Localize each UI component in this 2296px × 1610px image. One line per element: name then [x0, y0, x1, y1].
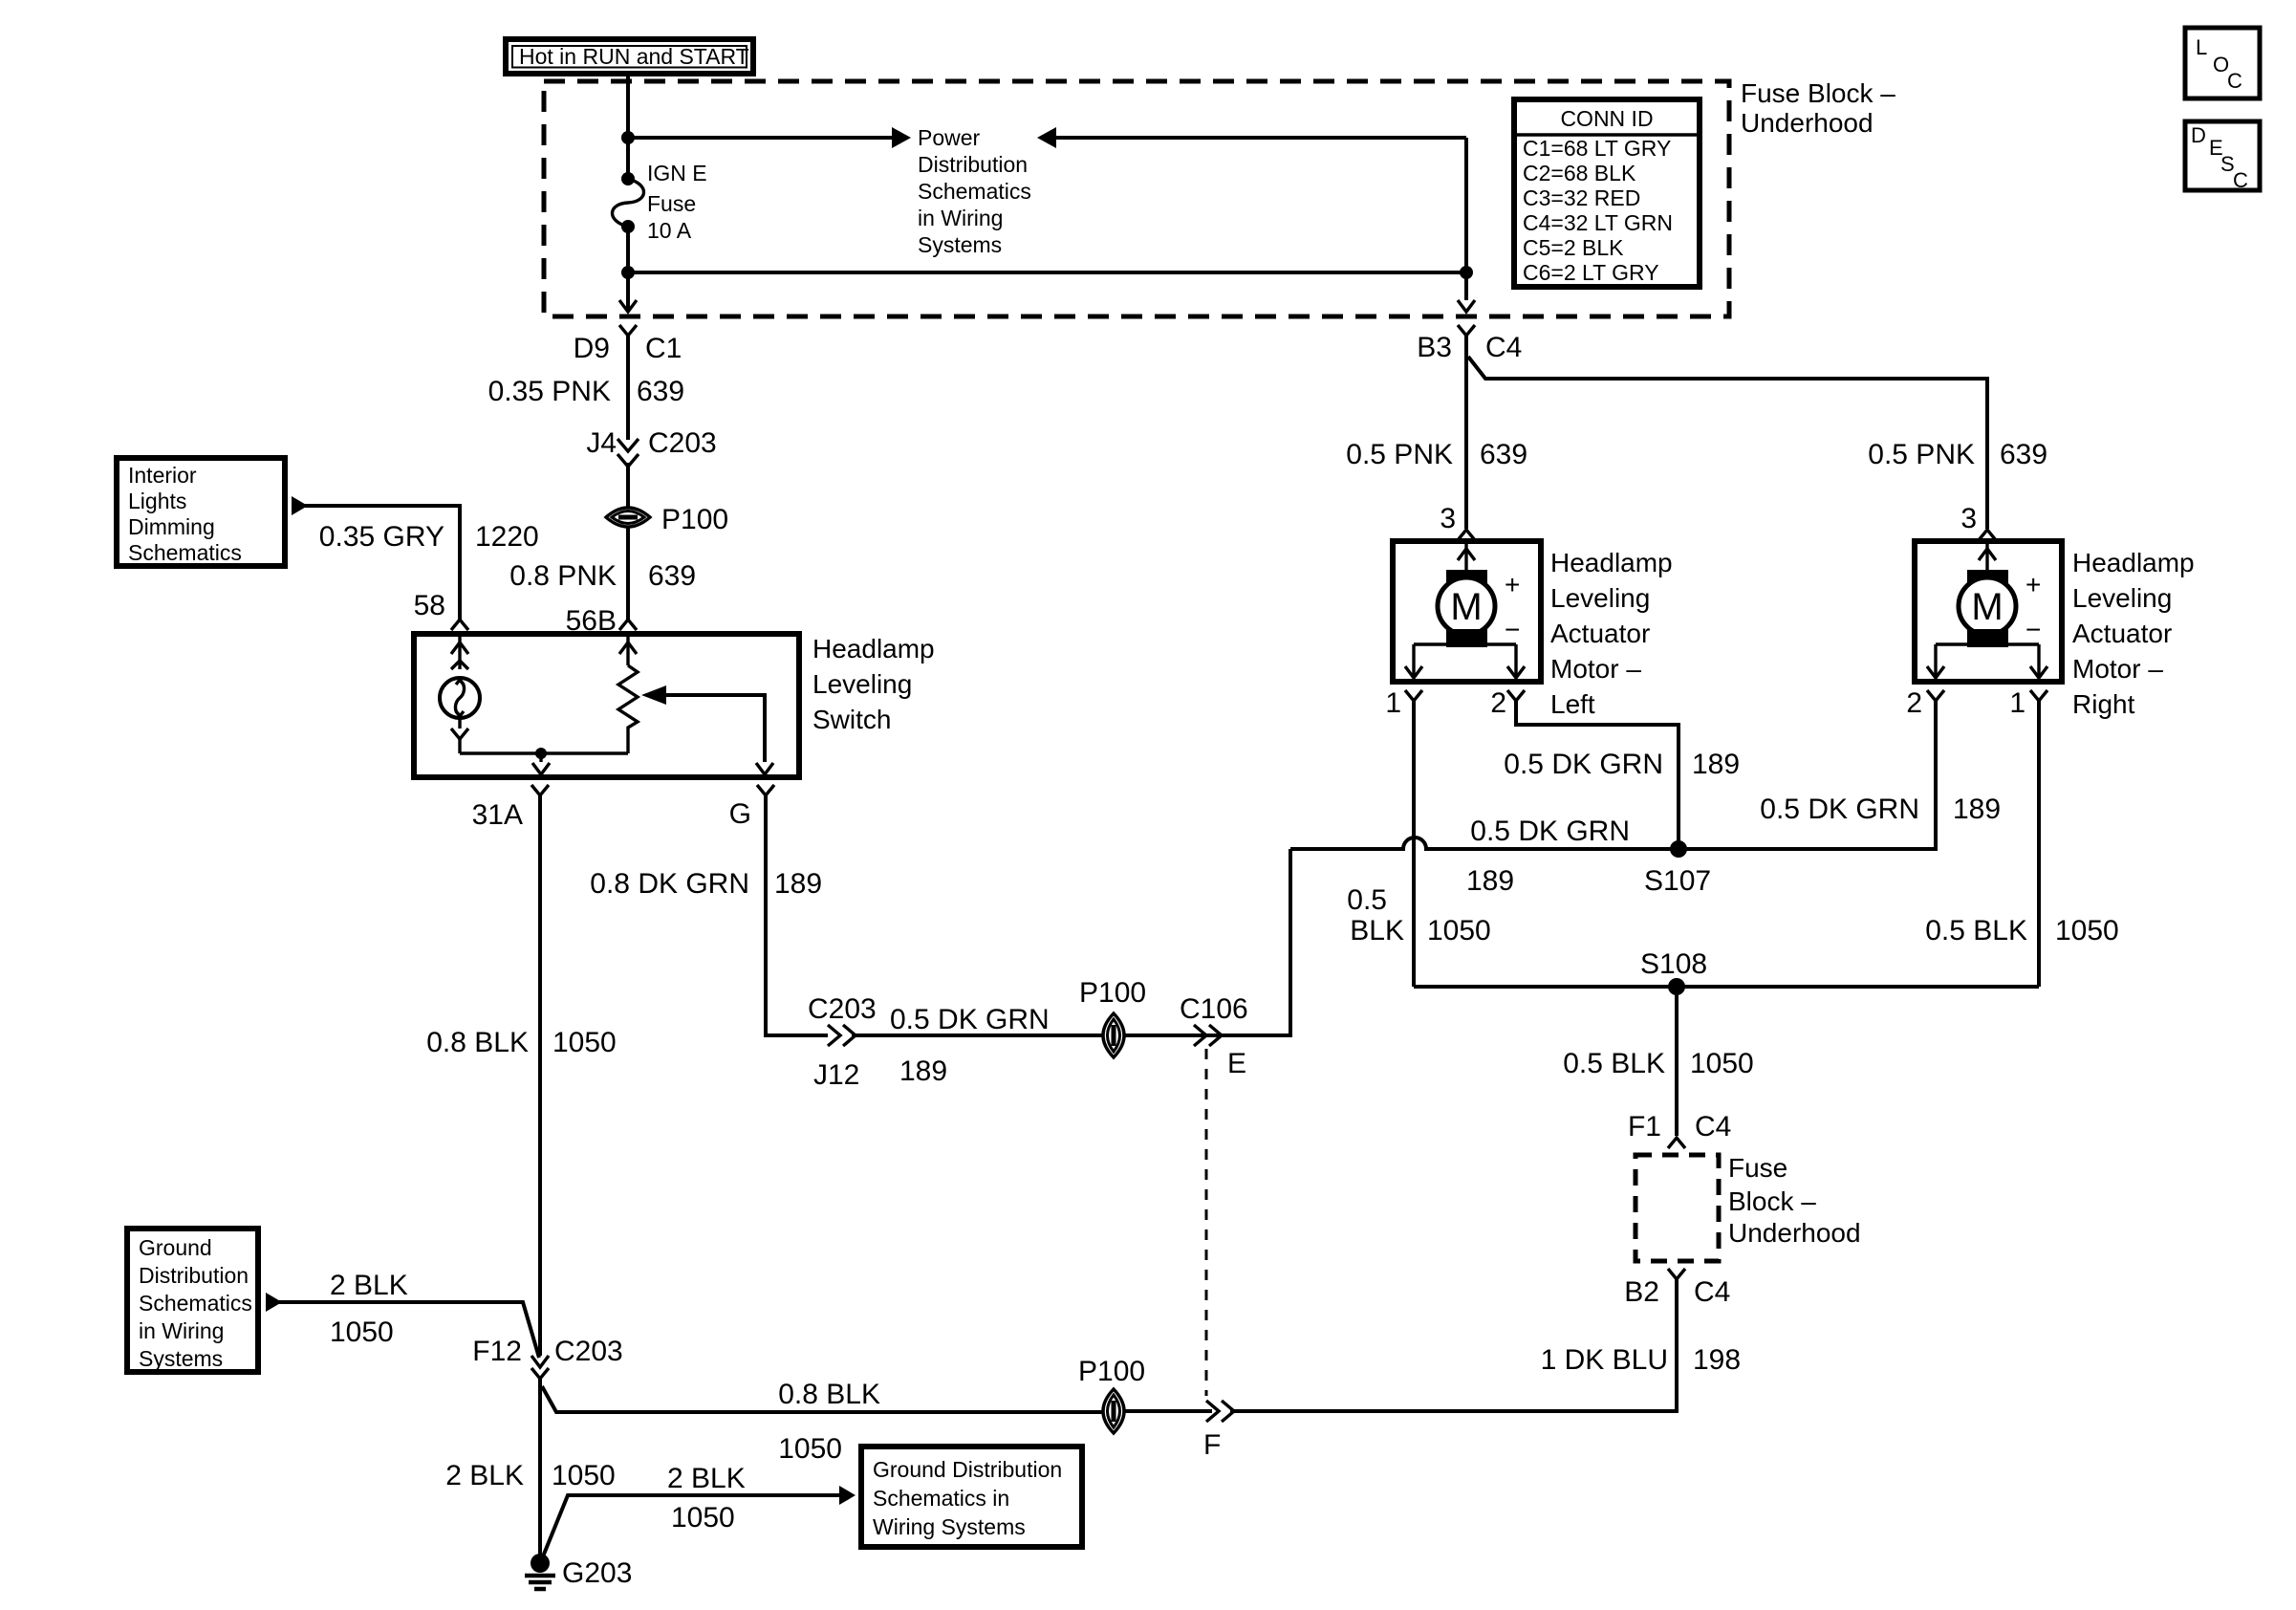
svg-text:C4=32 LT GRN: C4=32 LT GRN	[1523, 210, 1673, 235]
arrow at Interior Lights box	[292, 496, 308, 515]
svg-text:C2=68 BLK: C2=68 BLK	[1523, 161, 1636, 185]
svg-text:C203: C203	[554, 1336, 623, 1367]
svg-text:C4: C4	[1694, 1276, 1730, 1308]
ground G203 symbol	[525, 1554, 555, 1589]
svg-text:Underhood: Underhood	[1728, 1218, 1861, 1248]
label C203 above J12 below	[808, 993, 877, 1091]
svg-text:P100: P100	[1079, 977, 1146, 1009]
wire right motor pin 1 down to S108	[2037, 701, 2041, 987]
svg-text:0.8 DK GRN: 0.8 DK GRN	[590, 868, 749, 900]
Fuse Block Underhood small dashed box	[1635, 1155, 1719, 1261]
label pin 3 left	[1440, 503, 1456, 534]
svg-text:198: 198	[1693, 1344, 1741, 1376]
svg-text:F: F	[1203, 1429, 1221, 1461]
label 0.5 PNK 639 right	[1868, 439, 2047, 470]
svg-text:0.5 BLK: 0.5 BLK	[1925, 915, 2027, 946]
wire lower horizontal branch to B3	[628, 271, 1466, 274]
wire 198 DK BLU from B2 to F	[1230, 1279, 1677, 1411]
svg-text:G203: G203	[562, 1557, 632, 1589]
wire DK GRN from C106 riser to S107 with hop	[1290, 838, 1679, 849]
svg-text:C: C	[2233, 168, 2248, 192]
svg-text:1050: 1050	[2055, 915, 2119, 946]
lamp lower chevron	[451, 718, 468, 753]
svg-text:M: M	[1450, 586, 1482, 628]
svg-text:C106: C106	[1180, 993, 1248, 1025]
pin 3 chevron left motor	[1458, 530, 1475, 540]
svg-text:2: 2	[1490, 687, 1506, 719]
svg-text:189: 189	[899, 1055, 947, 1087]
svg-text:J12: J12	[813, 1059, 859, 1091]
svg-text:0.8 PNK: 0.8 PNK	[509, 560, 617, 592]
connector C106-E double chevron	[1194, 1025, 1222, 1046]
label B2 C4	[1624, 1276, 1730, 1308]
splice S108	[1668, 978, 1685, 995]
svg-text:C203: C203	[648, 427, 717, 459]
pin 3 chevron right motor	[1979, 530, 1996, 540]
svg-text:0.5 BLK: 0.5 BLK	[1563, 1048, 1665, 1079]
label 0.8 DK GRN 189	[590, 868, 822, 900]
label pin 1 left	[1385, 687, 1401, 719]
Headlamp Leveling Actuator Motor Left label	[1550, 548, 1673, 719]
Headlamp Leveling Actuator Motor Right label	[2072, 548, 2195, 719]
label 0.5 PNK 639 left	[1346, 439, 1527, 470]
svg-text:0.35 GRY: 0.35 GRY	[319, 521, 444, 553]
svg-text:C5=2 BLK: C5=2 BLK	[1523, 235, 1624, 260]
svg-text:Power: Power	[918, 125, 981, 150]
svg-text:Fuse: Fuse	[647, 191, 696, 216]
wire P100 to switch pin 56B	[626, 527, 630, 620]
Fuse Block Underhood small label	[1728, 1153, 1861, 1248]
svg-text:−: −	[1505, 615, 1520, 644]
wire 639 PNK to left motor pin 3	[1464, 336, 1468, 529]
label F12 C203	[472, 1336, 622, 1367]
label G	[729, 798, 751, 830]
svg-text:Motor –: Motor –	[2072, 654, 2163, 684]
Interior Lights Dimming Schematics reference box	[117, 458, 285, 566]
svg-text:0.5 DK GRN: 0.5 DK GRN	[1504, 749, 1663, 780]
label 2 BLK 1050 left	[330, 1270, 408, 1348]
label 0.5 DK GRN 189 pin2 left	[1504, 749, 1740, 780]
svg-text:J4: J4	[586, 427, 617, 459]
pin 1 fork right motor	[2030, 690, 2047, 701]
svg-text:Schematics in: Schematics in	[873, 1486, 1009, 1511]
label 58	[414, 590, 445, 621]
label 0.35 GRY 1220	[319, 521, 539, 553]
wire S107 to right motor pin 2	[1679, 701, 1936, 849]
svg-text:3: 3	[1960, 503, 1977, 534]
pin 2 fork right motor	[1927, 690, 1944, 701]
label P100	[661, 504, 728, 535]
svg-text:0.5 DK GRN: 0.5 DK GRN	[1760, 794, 1919, 825]
svg-text:189: 189	[1692, 749, 1740, 780]
svg-text:+: +	[2025, 570, 2041, 599]
switch lamp branch arrow and chevron	[451, 637, 468, 669]
label 0.5 DK GRN 189 main	[1466, 816, 1630, 897]
label 0.5 BLK 1050 pin1 right	[1925, 915, 2119, 946]
svg-text:58: 58	[414, 590, 445, 621]
connector F12-C203 arrow and fork	[531, 1356, 549, 1379]
wire 1220 GRY from Interior Lights to switch pin 58	[304, 506, 460, 620]
wire S108 bus	[1414, 985, 2039, 989]
svg-text:1 DK BLU: 1 DK BLU	[1541, 1344, 1668, 1376]
label S107	[1644, 865, 1711, 897]
label 0.8 PNK 639	[509, 560, 696, 592]
svg-text:Schematics: Schematics	[918, 179, 1031, 204]
svg-text:P100: P100	[1078, 1356, 1145, 1387]
svg-text:Distribution: Distribution	[918, 152, 1028, 177]
svg-text:31A: 31A	[472, 799, 523, 831]
label J4 C203	[586, 427, 716, 459]
svg-text:0.35 PNK: 0.35 PNK	[488, 376, 611, 407]
pin G fork	[757, 785, 774, 795]
svg-text:1050: 1050	[552, 1027, 617, 1058]
connector C203-J12 double chevron	[828, 1025, 856, 1046]
pin F1 chevron	[1668, 1138, 1685, 1148]
svg-text:−: −	[2025, 615, 2041, 644]
label 0.5 DK GRN 189 mid	[890, 1004, 1050, 1087]
wire 639 PNK from D9 to C203	[626, 336, 630, 440]
svg-text:Schematics: Schematics	[128, 540, 242, 565]
svg-text:0.5: 0.5	[1347, 884, 1387, 916]
svg-text:Motor –: Motor –	[1550, 654, 1641, 684]
svg-text:2 BLK: 2 BLK	[667, 1463, 746, 1494]
svg-text:0.8 BLK: 0.8 BLK	[778, 1379, 880, 1410]
svg-text:189: 189	[1466, 865, 1514, 897]
node junction below fuse	[621, 266, 635, 279]
label G203	[562, 1557, 632, 1589]
label 0.8 BLK 1050 bottom	[778, 1379, 880, 1465]
lamp (illumination) symbol	[440, 678, 480, 718]
wire 2 BLK 1050 from G203 to ground box right	[541, 1495, 841, 1561]
svg-text:Leveling: Leveling	[1550, 583, 1650, 613]
label B3 C4	[1417, 332, 1522, 363]
label S108	[1640, 948, 1707, 980]
motor M left symbol	[1438, 544, 1520, 647]
svg-text:G: G	[729, 798, 751, 830]
wire left motor pin 1 down to S108	[1412, 701, 1416, 987]
Headlamp Leveling Actuator Motor Left box	[1393, 541, 1541, 682]
pin 1 fork left motor	[1405, 690, 1422, 701]
wire from Hot in RUN box to fuse	[626, 74, 630, 179]
Fuse Block - Underhood dashed box	[544, 81, 1729, 316]
svg-text:0.5 DK GRN: 0.5 DK GRN	[1470, 816, 1630, 847]
svg-text:C1: C1	[645, 333, 682, 364]
label pin 1 right	[2009, 687, 2025, 719]
svg-text:3: 3	[1440, 503, 1456, 534]
potentiometer wiper arrow	[641, 685, 765, 762]
svg-text:0.5 PNK: 0.5 PNK	[1868, 439, 1975, 470]
wire C203 to P100	[626, 463, 630, 509]
svg-text:C4: C4	[1485, 332, 1522, 363]
svg-text:Headlamp: Headlamp	[2072, 548, 2195, 577]
label 56B	[566, 605, 617, 637]
svg-text:1050: 1050	[778, 1433, 842, 1465]
svg-text:Distribution: Distribution	[139, 1263, 249, 1288]
fuse IGN E 10A	[612, 172, 643, 233]
svg-text:S107: S107	[1644, 865, 1711, 897]
wire P100 to C106	[1124, 849, 1290, 1035]
wire P100 to F12	[542, 1386, 1103, 1412]
label pin 2 right	[1906, 687, 1922, 719]
svg-text:1050: 1050	[1427, 915, 1491, 946]
svg-text:Wiring Systems: Wiring Systems	[873, 1514, 1026, 1539]
svg-text:Headlamp: Headlamp	[812, 634, 935, 664]
motor right internal bottom wires	[1927, 644, 2047, 678]
label F	[1203, 1429, 1221, 1461]
svg-text:CONN ID: CONN ID	[1560, 106, 1653, 131]
Hot in RUN and START label box	[506, 39, 753, 74]
Power Distribution Schematics reference text	[918, 125, 1031, 257]
svg-text:C4: C4	[1695, 1111, 1731, 1142]
svg-text:10 A: 10 A	[647, 218, 692, 243]
svg-text:639: 639	[2000, 439, 2047, 470]
label 0.8 BLK 1050	[426, 1027, 617, 1058]
node junction at B3 riser	[1460, 266, 1473, 279]
wire left motor pin 2 to S107	[1516, 701, 1679, 849]
svg-text:Fuse: Fuse	[1728, 1153, 1787, 1183]
switch resistor top arrow	[619, 637, 637, 665]
svg-text:Right: Right	[2072, 689, 2135, 719]
svg-text:1: 1	[1385, 687, 1401, 719]
svg-text:+: +	[1505, 570, 1520, 599]
svg-text:Leveling: Leveling	[812, 669, 912, 699]
DESC hotlink box	[2185, 121, 2260, 192]
Fuse Block - Underhood label	[1741, 78, 1895, 138]
Ground Distribution reference box mid	[861, 1447, 1082, 1547]
svg-text:C1=68 LT GRY: C1=68 LT GRY	[1523, 136, 1671, 161]
svg-text:1050: 1050	[552, 1460, 616, 1491]
label P100 mid	[1079, 977, 1146, 1009]
splice S107	[1670, 840, 1687, 858]
svg-text:639: 639	[1480, 439, 1527, 470]
resistor (potentiometer) zigzag	[618, 665, 638, 753]
svg-text:Actuator: Actuator	[2072, 619, 2172, 648]
svg-text:0.5 PNK: 0.5 PNK	[1346, 439, 1453, 470]
fuse label IGN E / Fuse / 10 A	[647, 161, 707, 243]
Headlamp Leveling Switch box	[414, 634, 799, 777]
svg-text:Systems: Systems	[918, 232, 1002, 257]
wire 2 BLK 1050 from ground box to F12	[278, 1302, 539, 1358]
svg-text:F1: F1	[1628, 1111, 1661, 1142]
label 2 BLK 1050 right	[667, 1463, 746, 1534]
connector F double chevron	[1206, 1401, 1234, 1422]
svg-text:D: D	[2191, 123, 2206, 147]
svg-text:Actuator: Actuator	[1550, 619, 1650, 648]
svg-text:B3: B3	[1417, 332, 1452, 363]
wire from right with left arrow to Power Distribution	[1037, 127, 1466, 148]
label 0.5 DK GRN 189 right	[1760, 794, 2001, 825]
pin 56B chevron	[619, 620, 637, 630]
arrow at Ground Distribution left box	[266, 1293, 282, 1312]
svg-text:Block –: Block –	[1728, 1186, 1816, 1216]
svg-text:1050: 1050	[1690, 1048, 1754, 1079]
svg-text:Left: Left	[1550, 689, 1595, 719]
svg-text:Lights: Lights	[128, 489, 186, 513]
wire branch to right motor pin 3	[1468, 357, 1987, 529]
wire from fuse to lower junction	[626, 227, 630, 272]
pin 58 chevron	[451, 620, 468, 630]
svg-text:639: 639	[648, 560, 696, 592]
svg-text:Interior: Interior	[128, 463, 197, 488]
svg-text:C203: C203	[808, 993, 877, 1025]
svg-text:Leveling: Leveling	[2072, 583, 2172, 613]
connector D9-C1 arrow and fork	[619, 272, 637, 336]
svg-text:Fuse Block –: Fuse Block –	[1741, 78, 1895, 108]
svg-text:Dimming: Dimming	[128, 514, 215, 539]
Headlamp Leveling Actuator Motor Right box	[1915, 541, 2062, 682]
svg-text:IGN E: IGN E	[647, 161, 707, 185]
switch internal bottom wire	[460, 751, 628, 754]
wire 31A to F12	[538, 795, 542, 1356]
pin B2 fork	[1668, 1269, 1685, 1279]
svg-text:M: M	[1971, 586, 2003, 628]
svg-text:in Wiring: in Wiring	[918, 206, 1003, 230]
label 2 BLK 1050 below F12	[445, 1460, 615, 1491]
svg-text:S108: S108	[1640, 948, 1707, 980]
label 0.5 BLK 1050 to F1	[1563, 1048, 1754, 1079]
svg-text:Schematics: Schematics	[139, 1291, 252, 1316]
label pin 2 left	[1490, 687, 1506, 719]
svg-text:B2: B2	[1624, 1276, 1659, 1308]
svg-text:Ground: Ground	[139, 1235, 212, 1260]
svg-text:D9: D9	[574, 333, 610, 364]
wire G to C203 J12	[766, 795, 828, 1035]
svg-text:1050: 1050	[330, 1316, 394, 1348]
LOC hotlink box	[2185, 28, 2260, 98]
node inside switch	[535, 748, 547, 759]
svg-text:2: 2	[1906, 687, 1922, 719]
svg-text:E: E	[1227, 1048, 1246, 1079]
label 31A	[472, 799, 523, 831]
svg-text:F12: F12	[472, 1336, 522, 1367]
svg-text:1: 1	[2009, 687, 2025, 719]
Headlamp Leveling Switch label	[812, 634, 935, 734]
pin 31A fork	[531, 785, 549, 795]
svg-text:639: 639	[637, 376, 684, 407]
label 0.5 BLK 1050 pin1 left	[1347, 884, 1490, 946]
svg-text:P100: P100	[661, 504, 728, 535]
label 1 DK BLU 198	[1541, 1344, 1741, 1376]
grommet P100 mid	[1103, 1013, 1124, 1057]
svg-text:0.8 BLK: 0.8 BLK	[426, 1027, 529, 1058]
svg-text:0.5 DK GRN: 0.5 DK GRN	[890, 1004, 1050, 1035]
svg-text:Switch: Switch	[812, 705, 891, 734]
grommet P100	[606, 508, 650, 527]
CONN ID table	[1514, 99, 1700, 287]
svg-text:in Wiring: in Wiring	[139, 1318, 224, 1343]
svg-text:C: C	[2227, 69, 2242, 93]
svg-text:C3=32 RED: C3=32 RED	[1523, 185, 1640, 210]
label pin 3 right	[1960, 503, 1977, 534]
svg-text:189: 189	[1953, 794, 2001, 825]
label P100 bottom	[1078, 1356, 1145, 1387]
connector J4-C203 double chevron	[617, 439, 639, 467]
svg-text:Underhood: Underhood	[1741, 108, 1874, 138]
dashed line from C106 E down to F	[1205, 1049, 1208, 1396]
connector B3-C4 arrow and fork	[1458, 300, 1475, 336]
label F1 C4	[1628, 1111, 1731, 1142]
switch output stem and arrow	[532, 753, 550, 774]
wire J12 to P100	[852, 1033, 1103, 1037]
grommet P100 bottom	[1103, 1389, 1124, 1433]
svg-text:2 BLK: 2 BLK	[330, 1270, 408, 1301]
label C106 above E below	[1180, 993, 1248, 1079]
svg-text:Hot in RUN and START: Hot in RUN and START	[519, 44, 749, 69]
wire branch to Power Distribution (right arrow)	[628, 127, 911, 148]
wire F to P100 bottom	[1125, 1409, 1212, 1413]
pin 2 fork left motor	[1507, 690, 1525, 701]
svg-text:Systems: Systems	[139, 1346, 223, 1371]
svg-text:2 BLK: 2 BLK	[445, 1460, 524, 1491]
wiper exit arrow to box bottom	[756, 763, 773, 774]
motor M right symbol	[1959, 544, 2041, 647]
arrow at Ground Distribution mid box	[839, 1486, 856, 1505]
svg-text:BLK: BLK	[1350, 915, 1404, 946]
svg-text:189: 189	[774, 868, 822, 900]
svg-text:1050: 1050	[671, 1502, 735, 1534]
Ground Distribution reference box left	[127, 1229, 258, 1372]
wire S108 to F1	[1675, 987, 1679, 1136]
svg-text:1220: 1220	[475, 521, 539, 553]
label 0.35 PNK 639	[488, 376, 684, 407]
svg-text:Ground Distribution: Ground Distribution	[873, 1457, 1062, 1482]
svg-text:Headlamp: Headlamp	[1550, 548, 1673, 577]
motor left internal bottom wires	[1405, 644, 1525, 678]
wire F12 to G203	[538, 1379, 542, 1563]
wire B3 riser inside fuse block	[1464, 138, 1468, 300]
svg-text:L: L	[2196, 35, 2207, 59]
svg-text:C6=2 LT GRY: C6=2 LT GRY	[1523, 260, 1659, 285]
label D9 C1	[574, 333, 682, 364]
node junction above fuse	[621, 131, 635, 144]
